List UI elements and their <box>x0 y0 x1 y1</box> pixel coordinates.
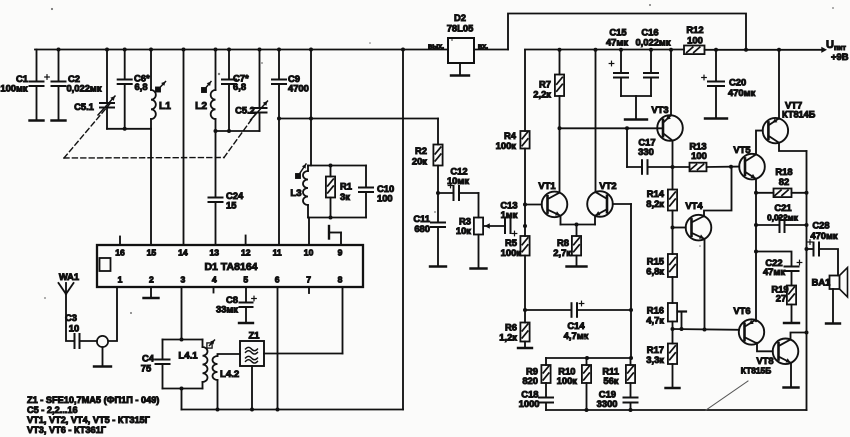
svg-text:VT1, VT2, VT4, VT5 - КТ315Г: VT1, VT2, VT4, VT5 - КТ315Г <box>27 415 151 425</box>
svg-text:16: 16 <box>115 248 125 258</box>
svg-text:8,2к: 8,2к <box>646 198 664 209</box>
svg-text:3,3к: 3,3к <box>646 354 664 365</box>
svg-text:2,2к: 2,2к <box>533 89 551 100</box>
svg-text:7: 7 <box>306 275 311 285</box>
svg-text:100к: 100к <box>496 140 517 151</box>
svg-text:47мк: 47мк <box>606 37 628 48</box>
svg-text:15: 15 <box>147 248 157 258</box>
svg-text:C21: C21 <box>774 202 791 213</box>
svg-text:10к: 10к <box>456 225 471 236</box>
svg-text:5: 5 <box>243 275 248 285</box>
svg-text:100мк: 100мк <box>0 83 28 94</box>
svg-text:9: 9 <box>338 248 343 258</box>
svg-text:4: 4 <box>212 275 217 285</box>
svg-text:2: 2 <box>149 275 154 285</box>
svg-text:6,8: 6,8 <box>135 81 148 92</box>
svg-text:D1 ТА8164: D1 ТА8164 <box>204 261 257 273</box>
svg-text:3к: 3к <box>340 191 350 202</box>
svg-text:L4.1: L4.1 <box>178 351 198 362</box>
svg-text:12: 12 <box>241 248 251 258</box>
svg-text:VT5: VT5 <box>733 144 750 155</box>
svg-text:VT8: VT8 <box>756 355 773 366</box>
svg-text:0,022мк: 0,022мк <box>635 37 670 48</box>
svg-text:10: 10 <box>304 248 314 258</box>
svg-text:VT3: VT3 <box>651 104 668 115</box>
svg-text:КТ814Б: КТ814Б <box>782 110 816 120</box>
svg-text:вых.: вых. <box>428 44 444 51</box>
svg-text:100: 100 <box>687 35 703 46</box>
svg-text:R1: R1 <box>340 181 352 192</box>
svg-text:C5.2: C5.2 <box>235 105 255 116</box>
svg-text:VT3, VT6 - КТ361Г: VT3, VT6 - КТ361Г <box>27 425 107 435</box>
svg-text:4,7мк: 4,7мк <box>564 330 589 341</box>
svg-text:78L05: 78L05 <box>447 23 474 34</box>
svg-text:100: 100 <box>377 193 393 204</box>
svg-text:10мк: 10мк <box>447 175 469 186</box>
svg-text:100к: 100к <box>557 375 578 386</box>
svg-text:13: 13 <box>210 248 220 258</box>
svg-text:вх.: вх. <box>478 44 488 51</box>
svg-text:11: 11 <box>273 248 282 258</box>
svg-text:10: 10 <box>69 323 79 334</box>
svg-text:L2: L2 <box>195 101 207 112</box>
svg-text:1: 1 <box>118 275 123 285</box>
svg-text:20к: 20к <box>412 156 427 167</box>
svg-text:L1: L1 <box>159 101 171 112</box>
svg-text:VT2: VT2 <box>599 180 616 191</box>
svg-text:47мк: 47мк <box>763 266 785 277</box>
svg-text:L4.2: L4.2 <box>220 369 239 380</box>
svg-text:470мк: 470мк <box>810 230 838 241</box>
svg-text:VT4: VT4 <box>685 200 703 211</box>
svg-text:6,8к: 6,8к <box>646 266 664 277</box>
svg-text:VT6: VT6 <box>733 305 750 316</box>
svg-text:BA1: BA1 <box>812 277 831 288</box>
svg-text:R2: R2 <box>415 145 427 156</box>
svg-text:1мк: 1мк <box>501 209 518 220</box>
svg-text:15: 15 <box>226 200 236 211</box>
svg-text:0,022мк: 0,022мк <box>767 214 799 223</box>
svg-text:C5.1: C5.1 <box>74 101 94 112</box>
svg-text:+9В: +9В <box>831 51 849 62</box>
svg-text:100к: 100к <box>501 247 522 258</box>
svg-text:C20: C20 <box>729 77 746 88</box>
svg-text:C28: C28 <box>812 220 829 231</box>
svg-text:2,7к: 2,7к <box>553 247 571 258</box>
svg-text:14: 14 <box>178 248 188 258</box>
svg-text:3: 3 <box>180 275 185 285</box>
svg-text:0,022мк: 0,022мк <box>66 83 101 94</box>
svg-text:L3: L3 <box>290 188 301 199</box>
svg-text:100: 100 <box>691 150 707 161</box>
svg-text:C5 - 2,2...16: C5 - 2,2...16 <box>27 405 78 415</box>
svg-text:33мк: 33мк <box>216 304 238 315</box>
svg-text:C3: C3 <box>65 312 77 323</box>
svg-text:3300: 3300 <box>597 398 618 409</box>
svg-text:27: 27 <box>776 293 786 304</box>
svg-text:4700: 4700 <box>288 83 309 94</box>
svg-text:WA1: WA1 <box>59 271 79 282</box>
svg-text:820: 820 <box>522 375 538 386</box>
svg-text:330: 330 <box>638 146 654 157</box>
svg-text:VT1: VT1 <box>538 180 555 191</box>
svg-text:56к: 56к <box>603 375 618 386</box>
svg-text:1000: 1000 <box>519 398 540 409</box>
svg-text:6,8: 6,8 <box>233 81 246 92</box>
svg-text:D2: D2 <box>454 12 466 23</box>
svg-text:Z1 - SFE10,7МА5 (ФП1П - 049): Z1 - SFE10,7МА5 (ФП1П - 049) <box>27 395 159 405</box>
svg-text:4,7к: 4,7к <box>646 315 664 326</box>
svg-text:8: 8 <box>338 275 343 285</box>
svg-text:Z1: Z1 <box>249 330 260 341</box>
svg-text:680: 680 <box>414 223 430 234</box>
svg-text:1,2к: 1,2к <box>499 332 517 343</box>
svg-text:470мк: 470мк <box>728 87 756 98</box>
svg-text:82: 82 <box>779 176 789 187</box>
svg-text:R12: R12 <box>686 24 703 35</box>
svg-text:6: 6 <box>275 275 280 285</box>
svg-text:75: 75 <box>141 363 151 374</box>
svg-text:КТ815Б: КТ815Б <box>741 366 771 376</box>
